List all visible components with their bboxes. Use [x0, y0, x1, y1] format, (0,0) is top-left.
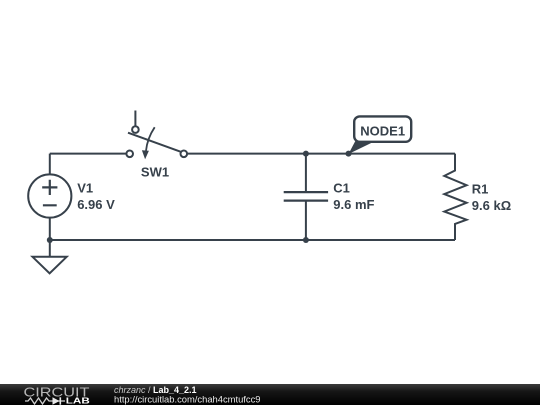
svg-text:6.96 V: 6.96 V: [77, 197, 115, 212]
svg-text:9.6 mF: 9.6 mF: [333, 197, 374, 212]
capacitor C1 plates: [284, 192, 328, 201]
label V1 value: [77, 181, 115, 213]
node junction dot V1 bottom: [47, 237, 53, 243]
svg-text:LAB: LAB: [66, 397, 90, 405]
CircuitLab logo wire and diode: [52, 397, 65, 404]
svg-text:NODE1: NODE1: [360, 123, 405, 138]
svg-text:SW1: SW1: [141, 165, 169, 180]
footer bar: [0, 384, 540, 405]
footer attribution line 1: [114, 385, 197, 395]
ground: [33, 257, 67, 274]
wire C1 bottom lead: [305, 201, 307, 240]
svg-text:C1: C1: [333, 181, 350, 196]
node NODE1 box: [354, 116, 411, 141]
label C1 value: [333, 181, 374, 213]
resistor R1: [444, 154, 466, 240]
voltage source V1: [28, 174, 71, 217]
label R1 value: [472, 182, 511, 214]
switch SW1: [126, 111, 187, 158]
svg-text:R1: R1: [472, 182, 489, 197]
wire C1 top lead: [305, 154, 307, 193]
wire bottom: [50, 239, 455, 241]
svg-text:9.6 kΩ: 9.6 kΩ: [472, 198, 511, 213]
switch SW1 actuation arrow: [142, 127, 155, 159]
node NODE1 dot: [346, 151, 352, 157]
node junction dot C1 bottom: [303, 237, 309, 243]
wire top from V1 to SW1 left terminal: [50, 153, 127, 155]
wire V1 top lead: [49, 154, 51, 175]
CircuitLab logo resistor squiggle: [25, 398, 52, 404]
wire top from SW1 right terminal to right corner: [187, 153, 455, 155]
node NODE1 callout tail: [349, 141, 375, 154]
node junction dot C1 top: [303, 151, 309, 157]
wire V1 bottom lead to ground: [49, 218, 51, 257]
svg-text:V1: V1: [77, 181, 93, 196]
svg-text:http://circuitlab.com/chah4cmt: http://circuitlab.com/chah4cmtufcc9: [114, 394, 261, 404]
